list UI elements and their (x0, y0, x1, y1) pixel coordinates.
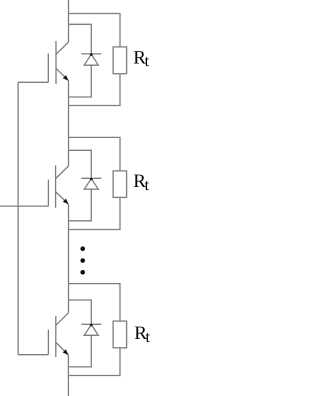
resistor R1 (113, 47, 127, 74)
transistor Q1 (IGBT) (48, 41, 68, 84)
wire resistor R3 top feed (69, 284, 121, 322)
wire gate input Q2 (0, 205, 48, 207)
wire main bus emitter Q2 to collector Q3 (68, 204, 70, 312)
wire diode D2 top feed (69, 150, 92, 178)
diode D3 (81, 324, 101, 336)
wire diode D3 bottom (68, 335, 91, 367)
wire diode D1 top feed (69, 24, 92, 54)
wire diode D2 bottom (69, 189, 92, 221)
wire resistor R3 bottom (68, 348, 120, 376)
diode D2 (81, 178, 101, 190)
wire gate lead Q3 (18, 354, 48, 356)
wire gate bus vertical (17, 82, 19, 354)
resistor R3 (113, 321, 127, 348)
transistor Q3 (IGBT) (48, 313, 68, 357)
label Rt (R2) (133, 171, 149, 194)
label Rt (R1) (133, 47, 149, 70)
wire gate lead Q1 (18, 81, 48, 83)
wire diode D1 bottom (69, 65, 92, 97)
wire main bus collector Q1 (68, 0, 70, 42)
diode D1 (81, 53, 101, 65)
wire resistor R1 top feed (69, 14, 121, 47)
wire resistor R1 bottom (69, 74, 121, 106)
wire main bus emitter Q3 to bottom (67, 355, 69, 396)
svg-text:t: t (145, 53, 150, 70)
ellipsis dots (80, 246, 85, 274)
label Rt (R3) (134, 323, 150, 346)
wire resistor R2 bottom (69, 197, 121, 229)
svg-text:t: t (145, 177, 150, 194)
wire main bus emitter Q1 to collector Q2 (68, 81, 70, 166)
wire resistor R2 top feed (69, 137, 121, 171)
resistor R2 (113, 171, 127, 198)
svg-text:t: t (146, 329, 151, 346)
transistor Q2 (IGBT) (48, 165, 68, 207)
wire diode D3 top feed (69, 300, 92, 324)
